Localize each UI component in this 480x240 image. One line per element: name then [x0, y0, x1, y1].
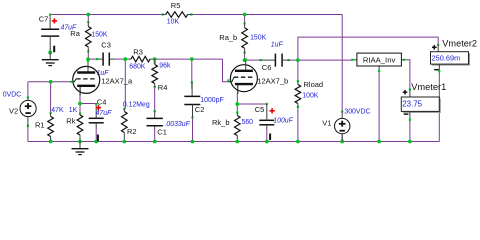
- capacitor C6: [259, 59, 261, 61]
- resistor R2 zigzag: [122, 112, 128, 133]
- resistor Rload: [297, 80, 299, 82]
- wire C5 bottom: [266, 130, 268, 142]
- svg-text:Rk: Rk: [66, 117, 75, 126]
- capacitor C2: [191, 81, 193, 83]
- node C7 ground junction: [48, 51, 52, 55]
- polarity mark C4 +: [96, 107, 101, 109]
- triode tube1 12AX7_a: [73, 66, 100, 93]
- svg-text:Vmeter1: Vmeter1: [411, 82, 446, 92]
- node C2 junction: [190, 57, 194, 61]
- svg-text:100uF: 100uF: [273, 117, 293, 124]
- polarity mark C7 +: [52, 20, 57, 22]
- wire RIAA bottom pin down: [378, 72, 380, 142]
- node Ra top rail junction: [86, 13, 90, 17]
- svg-text:V1: V1: [322, 119, 331, 128]
- svg-text:Rk_b: Rk_b: [212, 118, 230, 127]
- resistor Rk zigzag: [77, 115, 83, 135]
- resistor Ra: [87, 21, 89, 23]
- ground (C7): [49, 53, 51, 60]
- current marker I (C5): [269, 134, 271, 141]
- wire input to grid1: [28, 81, 72, 83]
- svg-text:RIAA_Inv: RIAA_Inv: [363, 55, 396, 64]
- svg-text:C3: C3: [101, 41, 111, 50]
- node plate1: [86, 57, 90, 61]
- svg-text:R5: R5: [171, 1, 181, 10]
- resistor R3: [128, 58, 131, 60]
- wire to Rk: [79, 104, 81, 114]
- wire R1 hang: [50, 82, 52, 113]
- node cathode1 junction: [78, 102, 82, 106]
- svg-text:Vmeter2: Vmeter2: [442, 38, 477, 48]
- wire Vmeter2 minus drop: [438, 72, 440, 142]
- wire cathode2 to C5: [237, 103, 266, 105]
- resistor Rload zigzag: [295, 85, 301, 104]
- current marker I (C7 ground): [53, 46, 55, 53]
- svg-text:Ra: Ra: [70, 29, 80, 38]
- svg-text:C2: C2: [195, 105, 205, 114]
- svg-text:150K: 150K: [91, 32, 107, 39]
- svg-text:R2: R2: [127, 127, 137, 136]
- svg-text:C6: C6: [262, 63, 272, 72]
- node rail junction x=236.8: [235, 140, 239, 144]
- svg-text:0VDC: 0VDC: [3, 92, 21, 99]
- svg-text:47K: 47K: [51, 107, 64, 114]
- svg-text:12AX7_a: 12AX7_a: [101, 77, 133, 86]
- resistor Ra_b zigzag: [242, 28, 248, 49]
- svg-text:.0033uF: .0033uF: [165, 121, 191, 128]
- svg-text:1000pF: 1000pF: [200, 97, 223, 104]
- svg-text:300VDC: 300VDC: [344, 108, 370, 115]
- ground (bottom rail): [79, 142, 81, 149]
- wire Ra_b top stub: [244, 15, 246, 24]
- node rail junction x=50.1: [49, 140, 53, 144]
- capacitor C4: [95, 103, 97, 105]
- polarity mark C5 +: [270, 110, 275, 112]
- wire Rload bottom: [297, 107, 299, 142]
- node Ra_b top rail junction: [243, 13, 247, 17]
- resistor Ra_b: [244, 22, 246, 24]
- wire top rail left segment: [50, 14, 162, 16]
- svg-text:47uF: 47uF: [96, 110, 112, 117]
- wire plate2 pin stub: [245, 58, 247, 61]
- resistor Rk_b: [236, 111, 238, 113]
- wire top rail right segment: [192, 14, 343, 16]
- capacitor C3: [97, 58, 103, 60]
- node plate2 junction: [243, 58, 247, 62]
- node rail junction x=123.8: [122, 140, 126, 144]
- svg-text:96k: 96k: [159, 63, 171, 70]
- capacitor C1: [154, 110, 156, 112]
- resistor Rk_b zigzag: [235, 116, 241, 136]
- svg-text:V2: V2: [9, 107, 18, 116]
- wire R2 hang: [124, 59, 126, 109]
- wire V1 branch vertical: [341, 15, 343, 112]
- wire cathode2 down: [236, 93, 238, 104]
- resistor R4 zigzag: [152, 65, 158, 84]
- wire R4 to C1: [154, 87, 156, 111]
- resistor Rk: [79, 112, 81, 114]
- node output junction: [296, 58, 300, 62]
- resistor R5 zigzag: [166, 12, 188, 18]
- wire cathode1 to C4: [80, 103, 96, 105]
- node rail junction x=297.4: [296, 140, 300, 144]
- svg-text:C7: C7: [39, 15, 49, 24]
- svg-text:R4: R4: [158, 83, 168, 92]
- node rail junction x=378.6: [377, 140, 381, 144]
- node R3/R4 junction: [153, 57, 157, 61]
- meter Vmeter1 value box: [403, 99, 441, 113]
- wire V2 bottom: [27, 126, 29, 142]
- wire C4 stub: [95, 104, 97, 108]
- meter Vmeter2: [437, 44, 439, 46]
- wire plate2 to C6: [245, 59, 261, 61]
- wire output to Vmeter2 plus: [298, 37, 438, 60]
- node rail junction x=192.0: [191, 140, 195, 144]
- svg-text:R3: R3: [133, 48, 143, 57]
- svg-text:1uF: 1uF: [271, 42, 284, 49]
- resistor R1 zigzag: [48, 117, 54, 137]
- node rail junction x=154.2: [153, 140, 157, 144]
- svg-text:Rload: Rload: [304, 80, 324, 89]
- svg-text:0.12Meg: 0.12Meg: [123, 102, 150, 109]
- svg-text:R1: R1: [35, 121, 45, 130]
- svg-text:560: 560: [242, 119, 254, 126]
- wire V1 bottom: [341, 135, 343, 142]
- capacitor C7: [49, 17, 51, 29]
- node rail junction x=95.7: [94, 140, 98, 144]
- svg-text:12AX7_b: 12AX7_b: [257, 77, 288, 86]
- wire plate1 to C3: [88, 58, 97, 60]
- wire corner down to grid2: [223, 59, 229, 82]
- svg-text:23.75: 23.75: [402, 99, 422, 108]
- wire cathode1 down: [79, 93, 81, 103]
- svg-text:680K: 680K: [129, 64, 145, 71]
- node rail junction x=409.4: [408, 140, 412, 144]
- wire Ra_b bottom to plate2: [244, 53, 246, 60]
- wire C7 stub: [49, 15, 51, 18]
- meter Vmeter1: [409, 88, 411, 90]
- wire Ra top stub: [87, 15, 89, 23]
- wire down to V2: [27, 82, 29, 98]
- svg-text:100K: 100K: [302, 92, 318, 99]
- resistor R4: [154, 61, 156, 63]
- wire C1 bottom: [154, 130, 156, 142]
- node rail junction x=266.3: [265, 140, 269, 144]
- svg-text:250.69m: 250.69m: [432, 54, 461, 63]
- resistor R1: [50, 112, 52, 114]
- wire C6 out to RIAA: [289, 59, 352, 61]
- wire C4 bottom: [95, 129, 97, 142]
- wire C2 hang: [191, 59, 193, 89]
- wire bottom rail: [28, 141, 439, 143]
- capacitor C5: [266, 103, 268, 105]
- resistor R2: [123, 108, 125, 110]
- meter Vmeter2 value box: [432, 53, 470, 65]
- resistor Ra zigzag: [86, 27, 92, 48]
- triode tube2 12AX7_b: [230, 65, 257, 92]
- block RIAA_Inv: [352, 59, 357, 61]
- svg-text:1K: 1K: [69, 107, 78, 114]
- node rail junction x=341.7: [340, 140, 344, 144]
- svg-text:Ra_b: Ra_b: [219, 33, 237, 42]
- svg-text:C5: C5: [255, 105, 265, 114]
- node rail junction x=79.5: [78, 140, 82, 144]
- resistor R3 zigzag: [131, 56, 150, 62]
- wire C2 bottom: [192, 105, 194, 142]
- node cathode2 junction: [235, 102, 239, 106]
- wire RIAA out to Vmeter1: [405, 60, 410, 90]
- wire Vmeter1 minus down: [409, 120, 411, 142]
- voltage source V2: [20, 100, 36, 116]
- wire down to Rload: [297, 60, 299, 81]
- voltage source V1: [335, 118, 350, 133]
- wire Ra bottom to plate node: [87, 52, 89, 62]
- node R1/grid junction: [49, 80, 53, 84]
- wire to Rk_b: [236, 104, 238, 113]
- wire C3 out to R3: [116, 58, 128, 60]
- node C3/R3/R2 junction: [123, 57, 127, 61]
- svg-text:150K: 150K: [250, 34, 266, 41]
- svg-text:C1: C1: [157, 128, 167, 137]
- wire R3 out across to grid2 corner: [153, 58, 223, 60]
- resistor R5: [161, 13, 163, 15]
- current marker I (C4): [97, 135, 99, 142]
- svg-text:10K: 10K: [167, 18, 180, 25]
